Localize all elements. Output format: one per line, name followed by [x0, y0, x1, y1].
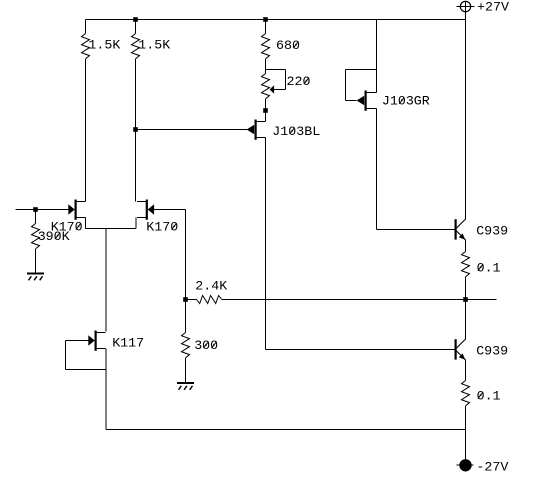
- wire output to Q6 collector: [465, 300, 467, 340]
- wire R6 top: [185, 300, 187, 333]
- label R4 390K: [38, 229, 70, 244]
- label R6 300: [194, 338, 218, 353]
- trimmer VR1 wiper loop: [266, 70, 286, 94]
- svg-text:2.4K: 2.4K: [195, 278, 227, 293]
- junction output node: [463, 297, 468, 302]
- wire Q4 drain up to rail: [367, 20, 377, 93]
- wire R5 to output node: [222, 299, 466, 301]
- wire R3 top: [265, 20, 267, 34]
- label Q5 C939: [476, 223, 508, 238]
- transistor Q6 C939: [455, 339, 466, 360]
- label R1 1.5K: [88, 38, 120, 53]
- wire common sources: [86, 218, 136, 229]
- junction rail-R3: [263, 17, 268, 22]
- svg-text:680: 680: [276, 38, 300, 53]
- svg-text:C939: C939: [476, 223, 508, 238]
- resistor R2 1.5K: [132, 34, 140, 59]
- transistor Q3 J103BL: [247, 120, 266, 140]
- wire R6 bottom: [185, 358, 187, 382]
- label Q1 K170: [51, 219, 83, 234]
- wire Q7 source down: [105, 349, 107, 430]
- label Q7 K117: [112, 335, 144, 350]
- wire Q4 gate-drain loop: [346, 70, 377, 101]
- power terminal -27V: [457, 460, 474, 471]
- transistor Q5 C939: [455, 219, 466, 240]
- label R5 2.4K: [195, 278, 227, 293]
- label R3 680: [276, 38, 300, 53]
- svg-text:220: 220: [287, 74, 311, 89]
- resistor R7 0.1: [462, 252, 470, 277]
- wire Q3 source down to Q6 base: [266, 138, 455, 350]
- transistor Q2 K170 right: [137, 200, 154, 220]
- wire Q7 gate-source loop: [66, 341, 107, 370]
- wire Q4 source down to Q5 base: [367, 109, 455, 230]
- wire R4 top: [35, 210, 37, 224]
- label R8 0.1: [477, 388, 501, 403]
- svg-text:1.5K: 1.5K: [138, 38, 170, 53]
- svg-text:J103BL: J103BL: [272, 124, 320, 139]
- wire Q2 gate to feedback: [154, 210, 185, 300]
- wire R8 bottom to -27V: [465, 406, 467, 460]
- wire R2 top: [135, 20, 137, 34]
- svg-text:1.5K: 1.5K: [88, 38, 120, 53]
- label +27V: [477, 0, 509, 14]
- wire Q3 gate line: [136, 129, 247, 131]
- resistor R3 680: [262, 34, 270, 59]
- svg-text:390K: 390K: [38, 229, 70, 244]
- junction VR1-Q3 drain: [263, 108, 268, 113]
- wire tail to Q7 drain: [105, 229, 107, 332]
- wire R1 bottom to Q1 drain: [85, 59, 87, 202]
- wire R7 bottom to output: [465, 277, 467, 300]
- wire input line: [16, 209, 69, 211]
- label VR1 220: [287, 74, 311, 89]
- wire Q6 emitter to R8: [465, 360, 467, 381]
- resistor R1 1.5K: [82, 34, 90, 59]
- trimmer VR1 220 body: [262, 74, 270, 99]
- wire bottom feedback line: [106, 429, 466, 431]
- transistor Q7 K117: [88, 331, 105, 351]
- wire Q5 emitter to R7: [465, 240, 467, 252]
- junction feedback node: [183, 297, 188, 302]
- transistor Q1 K170 left: [68, 200, 85, 220]
- junction input-R4: [33, 207, 38, 212]
- wire R4 bottom: [35, 249, 37, 273]
- transistor Q4 J103GR: [357, 91, 376, 111]
- junction rail-R2: [133, 17, 138, 22]
- ground GND1: [27, 274, 44, 281]
- wire output stub: [466, 299, 497, 301]
- wire R1 top: [85, 20, 87, 34]
- wire VR1 bottom to Q3 drain: [265, 99, 267, 122]
- wire top +27V rail: [86, 19, 466, 21]
- resistor R8 0.1: [462, 381, 470, 406]
- label Q6 C939: [476, 343, 508, 358]
- ground GND2: [177, 383, 194, 390]
- wire node to R5: [188, 299, 197, 301]
- label R7 0.1: [477, 261, 501, 276]
- svg-text:J103GR: J103GR: [382, 94, 430, 109]
- wire R2 bottom to Q2 drain: [135, 59, 137, 202]
- wire R3 to VR1: [265, 59, 267, 74]
- label Q4 J103GR: [382, 94, 430, 109]
- junction node drain2 / Q3 gate: [133, 127, 138, 132]
- resistor R6 300: [182, 333, 190, 358]
- resistor R4 390K: [32, 224, 40, 249]
- wire Q3 drain corner: [265, 111, 267, 122]
- resistor R5 2.4K: [197, 296, 222, 304]
- label Q2 K170: [146, 219, 178, 234]
- svg-text:K117: K117: [112, 335, 144, 350]
- label Q3 J103BL: [272, 124, 320, 139]
- label R2 1.5K: [138, 38, 170, 53]
- svg-text:C939: C939: [476, 343, 508, 358]
- svg-text:-27V: -27V: [476, 459, 508, 474]
- wire right rail from +27V to Q5 collector: [465, 20, 467, 220]
- power terminal +27V: [457, 1, 475, 19]
- svg-text:+27V: +27V: [477, 0, 509, 14]
- label -27V: [476, 459, 508, 474]
